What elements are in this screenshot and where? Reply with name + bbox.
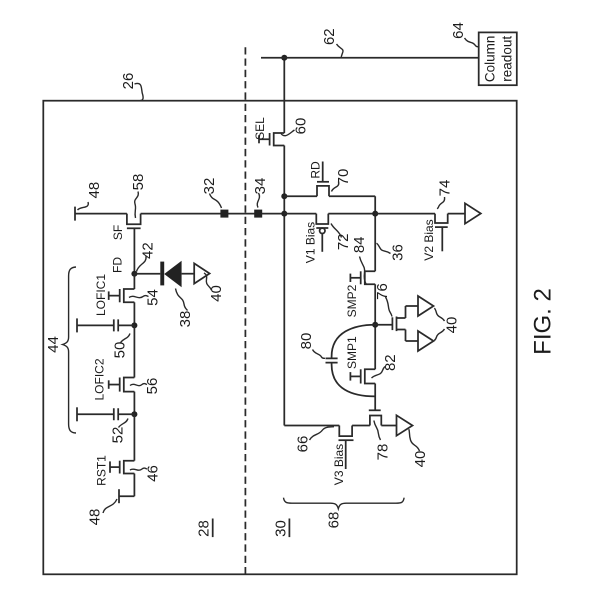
svg-text:70: 70 bbox=[335, 169, 352, 186]
row line (portion 30 top rail) bbox=[283, 58, 285, 426]
junction dot rail36 / follower76 bbox=[372, 322, 378, 328]
svg-text:66: 66 bbox=[295, 436, 312, 453]
transistor V2 Bias bbox=[435, 214, 448, 252]
leader for 70 bbox=[332, 182, 339, 192]
svg-text:34: 34 bbox=[252, 178, 269, 195]
leader for 84 bbox=[360, 257, 367, 285]
vertical rail pad34 line continues through V1 bbox=[284, 213, 375, 215]
svg-text:40: 40 bbox=[444, 317, 461, 334]
leader for 48 bbox=[78, 202, 89, 210]
photodiode stem from FD bbox=[134, 273, 160, 275]
svg-text:60: 60 bbox=[293, 118, 310, 135]
arrow 40 (follower 78 output) bbox=[397, 415, 413, 435]
leader for 62 bbox=[337, 44, 343, 57]
leader for 38 bbox=[176, 289, 188, 311]
transistor follower 76 bbox=[392, 306, 418, 341]
follower 76 gate wire bbox=[375, 324, 392, 326]
junction dot rail / column line 62 bbox=[281, 55, 287, 61]
svg-text:SEL: SEL bbox=[253, 117, 267, 140]
leader for 40a bbox=[204, 273, 212, 290]
transistor SMP1 bbox=[350, 369, 375, 383]
svg-text:30: 30 bbox=[272, 520, 289, 537]
wire RST1 to supply bbox=[119, 474, 134, 497]
wire cap52 node to RST1 bbox=[133, 414, 135, 460]
svg-text:80: 80 bbox=[298, 333, 315, 350]
svg-text:Column: Column bbox=[482, 36, 497, 83]
leader for 74 bbox=[437, 197, 445, 209]
transistor RST1 bbox=[110, 461, 134, 474]
transistor follower 78 bbox=[369, 410, 382, 425]
node cap52 junction dot bbox=[131, 411, 137, 417]
underline of 28 bbox=[212, 519, 214, 538]
leader for 82 bbox=[372, 367, 386, 379]
svg-text:SF: SF bbox=[111, 225, 125, 240]
node FD junction dot bbox=[131, 271, 137, 277]
photodiode 38 cathode bar bbox=[160, 262, 164, 286]
loop wire left arc (cap 80 to rail) bbox=[332, 363, 376, 397]
pixel boundary rectangle 26 bbox=[43, 101, 516, 575]
junction dot rail36 / vertical rail bbox=[372, 211, 378, 217]
wire pad32 to pad34 bbox=[228, 213, 255, 215]
leader for 48b bbox=[103, 499, 117, 513]
svg-text:RST1: RST1 bbox=[95, 455, 109, 486]
capacitor C80 bbox=[326, 358, 338, 362]
leader for 42 bbox=[137, 256, 147, 272]
svg-text:LOFIC1: LOFIC1 bbox=[94, 274, 108, 316]
leader for 78 bbox=[374, 421, 381, 441]
capacitor C50 bbox=[77, 319, 134, 331]
svg-text:68: 68 bbox=[326, 512, 343, 529]
svg-text:74: 74 bbox=[437, 180, 454, 197]
photodiode 38 triangle bbox=[164, 261, 181, 288]
Column readout box 64 bbox=[479, 32, 517, 85]
loop wire right arc (dot to cap 80) bbox=[332, 325, 376, 359]
svg-text:76: 76 bbox=[374, 283, 391, 300]
svg-text:50: 50 bbox=[112, 342, 129, 359]
leader for 54 bbox=[129, 295, 149, 297]
leader for 46 bbox=[130, 468, 147, 470]
svg-text:72: 72 bbox=[335, 233, 352, 250]
stacked-chip dividing dashed line bbox=[244, 45, 246, 574]
svg-text:64: 64 bbox=[450, 22, 467, 39]
bond pad 34 bbox=[254, 210, 262, 218]
arrow 40 (follower 76 left output) bbox=[418, 331, 434, 351]
svg-text:82: 82 bbox=[382, 354, 399, 371]
leader for 50 bbox=[121, 334, 131, 343]
svg-text:84: 84 bbox=[351, 236, 368, 253]
leader for 34 bbox=[257, 193, 259, 208]
column line 62 bbox=[261, 57, 479, 59]
svg-text:V3 Bias: V3 Bias bbox=[332, 444, 346, 485]
RD branch wire bbox=[284, 195, 375, 197]
wire LOFIC1 to cap50 node bbox=[133, 302, 135, 325]
svg-text:LOFIC2: LOFIC2 bbox=[93, 358, 107, 400]
leader for 58 bbox=[135, 192, 139, 219]
svg-text:SMP2: SMP2 bbox=[345, 284, 359, 317]
wire pad34 to row line bbox=[262, 213, 285, 215]
svg-text:38: 38 bbox=[177, 311, 194, 328]
leader for 60 bbox=[281, 130, 295, 136]
svg-text:56: 56 bbox=[144, 378, 161, 395]
leader for 40b right bbox=[434, 308, 444, 321]
svg-text:42: 42 bbox=[140, 242, 157, 259]
vertical rail to V2 bbox=[375, 213, 465, 215]
transistor SMP2 bbox=[350, 271, 375, 284]
transistor LOFIC1 bbox=[109, 289, 135, 302]
svg-text:62: 62 bbox=[321, 28, 338, 45]
svg-text:28: 28 bbox=[196, 520, 213, 537]
svg-text:48: 48 bbox=[86, 182, 103, 199]
svg-text:46: 46 bbox=[145, 465, 162, 482]
sample rail (node 36) bbox=[374, 196, 376, 410]
leader for 32 bbox=[210, 194, 222, 209]
transistor V3 Bias bbox=[339, 426, 354, 470]
leader for 40b left bbox=[434, 329, 444, 341]
arrow 40 (follower 76 right output) bbox=[418, 296, 434, 316]
svg-text:40: 40 bbox=[412, 451, 429, 468]
capacitor C52 bbox=[77, 408, 134, 420]
svg-text:readout: readout bbox=[500, 36, 515, 82]
leader for 76 bbox=[386, 297, 393, 317]
svg-text:RD: RD bbox=[309, 161, 323, 179]
svg-text:V2 Bias: V2 Bias bbox=[422, 219, 436, 260]
svg-text:44: 44 bbox=[45, 336, 62, 353]
SF gate lead to FD bbox=[133, 228, 135, 273]
svg-text:54: 54 bbox=[145, 289, 162, 306]
junction dot rail / RD branch bbox=[281, 193, 287, 199]
svg-text:58: 58 bbox=[130, 174, 147, 191]
svg-text:36: 36 bbox=[390, 244, 407, 261]
brace 44 bbox=[63, 267, 77, 433]
leader for 52 bbox=[119, 419, 129, 428]
wire SF source to pad 32 bbox=[141, 213, 221, 215]
wire cap50 node to LOFIC2 bbox=[133, 325, 135, 377]
transistor LOFIC2 bbox=[109, 378, 135, 392]
wire diode to arrow bbox=[182, 273, 195, 275]
wire LOFIC2 to cap52 node bbox=[133, 392, 135, 415]
arrow 40 (photodiode) bbox=[194, 263, 209, 283]
svg-text:FD: FD bbox=[111, 257, 125, 273]
wire FD to LOFIC1 bbox=[133, 274, 135, 289]
bond pad 32 bbox=[220, 210, 228, 218]
svg-text:V1 Bias: V1 Bias bbox=[304, 222, 318, 263]
terminal bar (cap 50 top) bbox=[76, 318, 78, 332]
terminal bar (cap 52 top) bbox=[76, 407, 78, 421]
brace 68 bbox=[284, 498, 405, 509]
leader for 80 bbox=[313, 350, 326, 359]
leader for 26 bbox=[135, 83, 144, 100]
svg-text:78: 78 bbox=[375, 444, 392, 461]
node cap50 junction dot bbox=[131, 322, 137, 328]
svg-text:FIG. 2: FIG. 2 bbox=[530, 288, 557, 355]
leader for 40c bbox=[409, 429, 420, 451]
junction dot rail / vertical rail bbox=[281, 211, 287, 217]
underline of 30 bbox=[288, 519, 290, 538]
leader for 72 bbox=[331, 224, 342, 238]
supply terminal 48 (RST1) bbox=[118, 489, 120, 503]
svg-text:SMP1: SMP1 bbox=[345, 336, 359, 369]
transistor SEL bbox=[259, 133, 284, 146]
leader for 36 bbox=[377, 243, 391, 253]
supply terminal 48 (SF drain) bbox=[75, 207, 127, 221]
svg-text:48: 48 bbox=[87, 509, 104, 526]
bias branch wire (V3 / follower 78) bbox=[284, 425, 396, 427]
svg-text:26: 26 bbox=[120, 73, 137, 90]
leader for 66 bbox=[310, 427, 335, 440]
svg-text:32: 32 bbox=[201, 178, 218, 195]
transistor V1 Bias bbox=[316, 214, 328, 252]
leader for 56 bbox=[130, 383, 147, 385]
svg-text:52: 52 bbox=[110, 427, 127, 444]
transistor SF bbox=[127, 214, 141, 229]
arrow 74 output bbox=[465, 203, 481, 223]
leader for 64 bbox=[465, 38, 479, 47]
transistor RD bbox=[317, 162, 329, 197]
